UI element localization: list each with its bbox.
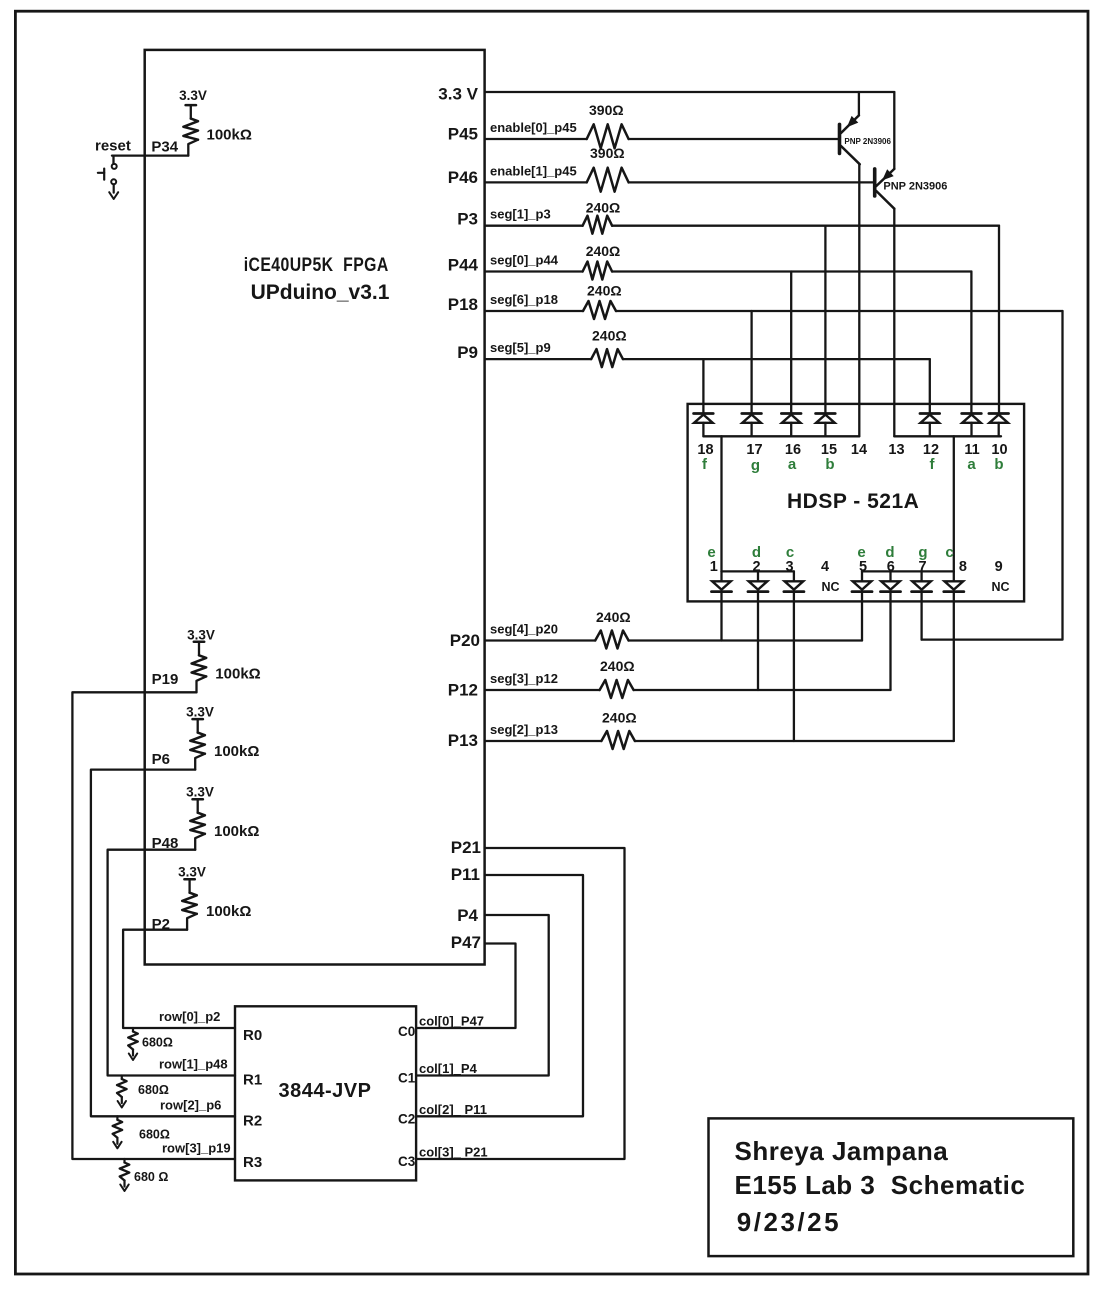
svg-text:row[0]_p2: row[0]_p2 [159, 1009, 220, 1024]
segment letter g (top) [751, 457, 760, 474]
wire seg g right drop [922, 311, 1063, 640]
pin P47 label [451, 933, 481, 952]
svg-text:R0: R0 [243, 1027, 262, 1044]
svg-text:R1: R1 [243, 1072, 262, 1089]
svg-text:seg[0]_p44: seg[0]_p44 [490, 253, 559, 268]
svg-text:14: 14 [851, 442, 867, 458]
pin number 17 label [746, 442, 762, 458]
svg-text:P9: P9 [457, 343, 478, 362]
pin R3 label [243, 1154, 262, 1171]
svg-text:240Ω: 240Ω [586, 243, 621, 259]
svg-text:col[2]_ P11: col[2]_ P11 [419, 1102, 487, 1117]
wire seg f net [623, 358, 930, 360]
svg-text:3.3 V: 3.3 V [438, 85, 478, 104]
pin P18 label [448, 295, 478, 314]
pin number 15 label [821, 442, 837, 458]
svg-text:Shreya Jampana: Shreya Jampana [735, 1136, 949, 1166]
svg-text:6: 6 [887, 559, 895, 575]
svg-text:E155 Lab 3 Schematic: E155 Lab 3 Schematic [735, 1170, 1026, 1200]
wire seg g net [616, 310, 1063, 312]
svg-text:13: 13 [888, 442, 904, 458]
svg-text:R2: R2 [243, 1113, 262, 1130]
wire pin 1 to seg e [720, 592, 722, 641]
net label row[0]_p2 [159, 1009, 220, 1024]
node 3.3V label at R1 [179, 88, 207, 103]
pin number 11 label [964, 442, 979, 458]
pin number 10 label [991, 442, 1007, 458]
switch SW1 reset pushbutton [98, 164, 117, 184]
wire seg a net [612, 270, 971, 272]
segment letter c (bottom) [945, 544, 953, 561]
svg-text:R3: R3 [243, 1154, 262, 1171]
LED diode pin 17 (g) [742, 414, 762, 437]
svg-text:100kΩ: 100kΩ [215, 666, 260, 683]
net label seg[6]_p18 [490, 292, 558, 307]
net label seg[0]_p44 [490, 253, 559, 268]
svg-text:C3: C3 [398, 1154, 416, 1169]
NC label pin 4 [821, 580, 839, 594]
pin P44 label [448, 256, 479, 275]
resistor R1 100k&#937; pull-up [183, 105, 198, 156]
LED diode pin 6 (d) [881, 571, 901, 591]
value label 100k&#937; R11 [215, 666, 260, 683]
svg-text:seg[4]_p20: seg[4]_p20 [490, 622, 558, 637]
pin P4 label [457, 906, 478, 925]
wire P11 to keypad C2 [416, 875, 583, 1116]
svg-text:P13: P13 [448, 731, 478, 750]
LED diode pin 5 (e) [852, 571, 872, 591]
FPGA U1 iCE40UP5K UPduino box [145, 50, 485, 965]
svg-text:3.3V: 3.3V [187, 628, 215, 643]
wire seg b net [612, 225, 999, 227]
svg-text:240Ω: 240Ω [587, 283, 622, 299]
resistor R16 680&#937; [117, 1076, 169, 1108]
svg-text:seg[5]_p9: seg[5]_p9 [490, 340, 551, 355]
pin P21 label [451, 838, 481, 857]
pin P9 label [457, 343, 478, 362]
svg-text:240Ω: 240Ω [586, 200, 621, 216]
segment letter b (top) [994, 456, 1003, 473]
svg-text:seg[6]_p18: seg[6]_p18 [490, 292, 558, 307]
wire seg b to pin 10 [998, 226, 1000, 414]
svg-text:3: 3 [785, 559, 793, 575]
pin R1 label [243, 1072, 262, 1089]
svg-text:3.3V: 3.3V [186, 705, 214, 720]
net label seg[4]_p20 [490, 622, 558, 637]
LED diode pin 18 (f) [694, 414, 714, 437]
svg-text:a: a [967, 456, 976, 473]
svg-text:a: a [788, 456, 797, 473]
svg-text:col[0]_P47: col[0]_P47 [419, 1014, 484, 1029]
segment letter a (top) [967, 456, 976, 473]
node 3.3V label at R12 [186, 705, 214, 720]
net label col[2]_P11 [419, 1102, 487, 1117]
pin number 9 label [995, 559, 1003, 575]
digit 2 common rail (pin 13) [894, 435, 1001, 437]
svg-text:3.3V: 3.3V [178, 865, 206, 880]
title block box [709, 1118, 1074, 1256]
segment letter e (bottom) [707, 544, 715, 561]
title text author [735, 1136, 949, 1166]
pin P48 label [152, 835, 179, 852]
pin number 2 label [752, 559, 760, 575]
wire seg a to pin 11 [970, 272, 972, 414]
pin number 13 label [888, 442, 904, 458]
svg-text:100kΩ: 100kΩ [207, 127, 252, 144]
value label 100k&#937; R13 [214, 823, 259, 840]
segment letter e (bottom) [857, 544, 865, 561]
pin R0 label [243, 1027, 262, 1044]
segment letter a (top) [788, 456, 797, 473]
svg-text:680Ω: 680Ω [142, 1036, 173, 1050]
svg-text:680Ω: 680Ω [139, 1128, 170, 1142]
wire P47 to keypad C0 [416, 944, 515, 1029]
net label enable[0]_p45 [490, 120, 577, 135]
transistor Q2 PNP 2N3906 [875, 92, 948, 209]
ground arrow below SW1 [109, 184, 118, 199]
svg-text:240Ω: 240Ω [592, 328, 627, 344]
svg-text:seg[3]_p12: seg[3]_p12 [490, 671, 558, 686]
node 3.3V label at R14 [178, 865, 206, 880]
wire pin 5 to seg e [861, 592, 863, 641]
resistor R10 240&#937; [601, 710, 636, 750]
svg-text:PNP 2N3906: PNP 2N3906 [883, 181, 947, 193]
pin P3 label [457, 210, 478, 229]
wire seg b to pin 15 [824, 226, 826, 414]
svg-text:1: 1 [710, 559, 718, 575]
svg-text:100kΩ: 100kΩ [206, 903, 251, 920]
svg-text:col[3]_ P21: col[3]_ P21 [419, 1145, 488, 1160]
wire pin 8 to seg c [953, 592, 955, 741]
segment letter g (bottom) [918, 544, 927, 561]
svg-text:row[3]_p19: row[3]_p19 [162, 1141, 231, 1156]
net label reset [95, 138, 131, 155]
svg-text:PNP 2N3906: PNP 2N3906 [844, 137, 891, 146]
wire P13 to R10 [485, 740, 601, 742]
pin number 4 label [821, 559, 829, 575]
pin P11 label [451, 865, 480, 884]
svg-text:row[2]_p6: row[2]_p6 [160, 1098, 221, 1113]
svg-text:240Ω: 240Ω [600, 658, 635, 674]
pin P45 label [448, 125, 478, 144]
value label 100k&#937; R12 [214, 743, 259, 760]
svg-text:240Ω: 240Ω [596, 609, 631, 625]
wire pin 6 to seg d [889, 592, 891, 690]
svg-text:C0: C0 [398, 1024, 415, 1039]
title text course [735, 1170, 1026, 1200]
segment letter d (bottom) [885, 544, 894, 561]
LED diode pin 8 (c) [944, 571, 964, 591]
svg-text:P21: P21 [451, 838, 481, 857]
resistor R3 390&#937; [587, 145, 629, 192]
resistor R4 240&#937; [583, 200, 621, 234]
wire P3 to R4 [485, 225, 583, 227]
LED diode pin 7 (g) [912, 571, 932, 591]
wire seg a to pin 16 [790, 272, 792, 414]
LED diode pin 15 (b) [816, 414, 836, 437]
pin number 16 label [785, 442, 801, 458]
display U2 HDSP-521A box [688, 404, 1025, 602]
wire P2 to keypad R0 [123, 930, 235, 1028]
title text date [737, 1207, 841, 1237]
net label enable[1]_p45 [490, 163, 577, 178]
svg-text:g: g [751, 457, 760, 474]
pin P19 label [152, 671, 179, 688]
svg-text:enable[0]_p45: enable[0]_p45 [490, 120, 577, 135]
pin number 5 label [859, 559, 867, 575]
node 3.3V supply pin label [438, 85, 478, 104]
LED diode pin 16 (a) [781, 414, 801, 437]
wire P9 to R7 [485, 358, 591, 360]
pin C3 label [398, 1154, 416, 1169]
svg-text:seg[2]_p13: seg[2]_p13 [490, 722, 558, 737]
net label row[2]_p6 [160, 1098, 221, 1113]
wire pin 3 to seg c [793, 592, 795, 741]
net label seg[3]_p12 [490, 671, 558, 686]
segment letter d (bottom) [752, 544, 761, 561]
svg-text:240Ω: 240Ω [602, 710, 637, 726]
svg-text:seg[1]_p3: seg[1]_p3 [490, 207, 551, 222]
svg-text:P34: P34 [151, 139, 178, 156]
digit 1 bottom rail [722, 570, 794, 572]
wire 3.3V supply rail [485, 91, 894, 93]
pin number 18 label [697, 442, 713, 458]
segment letter f (top) [930, 456, 936, 473]
net label seg[2]_p13 [490, 722, 558, 737]
pin P6 label [152, 751, 170, 768]
pin P13 label [448, 731, 478, 750]
wire Q2 collector to display pin 13 [893, 209, 895, 437]
wire P20 to R8 [485, 639, 595, 641]
svg-text:3844-JVP: 3844-JVP [279, 1080, 372, 1102]
svg-text:f: f [930, 456, 936, 473]
pin P34 label [151, 139, 178, 156]
svg-text:17: 17 [746, 442, 762, 458]
value label 100k&#937; R14 [206, 903, 251, 920]
segment letter c (bottom) [786, 544, 794, 561]
resistor R8 240&#937; [595, 609, 630, 649]
resistor R5 240&#937; [583, 243, 621, 280]
resistor R12 100k&#937; pull-up [190, 719, 205, 770]
wire seg f to pin 18 [702, 359, 704, 413]
LED diode pin 12 (f) [920, 414, 940, 437]
pin C0 label [398, 1024, 415, 1039]
wire P48 to keypad R1 [108, 850, 235, 1076]
digit 1 common rail (pin 14) [703, 435, 859, 437]
resistor R18 680&#937; [120, 1159, 169, 1191]
wire seg f to pin 12 [929, 359, 931, 413]
pin R2 label [243, 1113, 262, 1130]
svg-text:f: f [702, 456, 708, 473]
wire P4 to keypad C1 [416, 915, 549, 1076]
net label row[3]_p19 [162, 1141, 231, 1156]
wire P21 to keypad C3 [416, 848, 624, 1159]
wire Q1 collector to display pin 14 [858, 164, 860, 436]
svg-text:P19: P19 [152, 671, 179, 688]
pin P20 label [450, 631, 480, 650]
svg-text:680 Ω: 680 Ω [134, 1170, 168, 1184]
svg-text:390Ω: 390Ω [590, 145, 625, 161]
net label col[1]_P4 [419, 1061, 478, 1076]
digit 2 common connector [953, 436, 955, 571]
keypad U3 3844-JVP box [235, 1006, 416, 1180]
value label 100k&#937; R1 [207, 127, 252, 144]
net label seg[5]_p9 [490, 340, 551, 355]
svg-text:P44: P44 [448, 256, 479, 275]
resistor R6 240&#937; [583, 283, 622, 320]
resistor R13 100k&#937; pull-up [190, 799, 205, 850]
pin number 3 label [785, 559, 793, 575]
svg-text:7: 7 [918, 559, 926, 575]
node 3.3V label at R13 [186, 785, 214, 800]
svg-text:c: c [945, 544, 953, 561]
pin P2 label [152, 916, 170, 933]
svg-text:UPduino_v3.1: UPduino_v3.1 [251, 281, 390, 304]
wire P45 to R2 [485, 138, 587, 140]
svg-text:680Ω: 680Ω [138, 1083, 169, 1097]
svg-text:3.3V: 3.3V [186, 785, 214, 800]
wire P44 to R5 [485, 270, 583, 272]
pin number 1 label [710, 559, 718, 575]
resistor R11 100k&#937; pull-up [192, 642, 207, 693]
resistor R17 680&#937; [113, 1116, 170, 1148]
net label seg[1]_p3 [490, 207, 551, 222]
svg-text:enable[1]_p45: enable[1]_p45 [490, 163, 577, 178]
resistor R2 390&#937; [587, 102, 629, 148]
svg-text:5: 5 [859, 559, 867, 575]
LED diode pin 2 (d) [748, 571, 768, 591]
LED diode pin 1 (e) [712, 571, 732, 591]
svg-text:P46: P46 [448, 168, 478, 187]
wire pin 2 to seg d [757, 592, 759, 690]
svg-text:P4: P4 [457, 906, 478, 925]
svg-text:HDSP - 521A: HDSP - 521A [787, 490, 919, 513]
svg-text:C2: C2 [398, 1112, 415, 1127]
wire R2 to Q1 base [629, 138, 840, 140]
resistor R9 240&#937; [600, 658, 635, 698]
digit 1 common connector [720, 436, 722, 571]
transistor Q1 PNP 2N3906 [840, 92, 892, 164]
net label col[0]_P47 [419, 1014, 484, 1029]
pin number 12 label [923, 442, 939, 458]
resistor R7 240&#937; [591, 328, 626, 368]
svg-text:col[1]_P4: col[1]_P4 [419, 1061, 478, 1076]
node 3.3V label at R11 [187, 628, 215, 643]
net label col[3]_P21 [419, 1145, 488, 1160]
svg-text:C1: C1 [398, 1071, 416, 1086]
wire seg e net [629, 639, 862, 641]
svg-text:P6: P6 [152, 751, 170, 768]
svg-text:b: b [994, 456, 1003, 473]
pin P46 label [448, 168, 478, 187]
svg-text:P45: P45 [448, 125, 478, 144]
digit 2 bottom rail [862, 570, 954, 572]
pin number 6 label [887, 559, 895, 575]
pin number 7 label [918, 559, 926, 575]
net label row[1]_p48 [159, 1057, 228, 1072]
pin P12 label [448, 681, 478, 700]
svg-text:b: b [825, 456, 834, 473]
svg-text:reset: reset [95, 138, 131, 155]
svg-text:row[1]_p48: row[1]_p48 [159, 1057, 228, 1072]
wire seg g to pin 7 [920, 592, 922, 640]
svg-text:3.3V: 3.3V [179, 88, 207, 103]
svg-text:P47: P47 [451, 933, 481, 952]
wire P19 to keypad R3 [72, 692, 235, 1159]
pin number 14 label [851, 442, 867, 458]
svg-text:9: 9 [995, 559, 1003, 575]
wire P34 reset net [112, 156, 188, 164]
LED diode pin 10 (b) [989, 414, 1009, 437]
wire P46 to R3 [485, 181, 587, 183]
pin C2 label [398, 1112, 415, 1127]
svg-text:2: 2 [752, 559, 760, 575]
svg-text:9/23/25: 9/23/25 [737, 1207, 841, 1237]
wire P12 to R9 [485, 689, 600, 691]
NC label pin 9 [991, 580, 1009, 594]
wire R3 to Q2 base [629, 181, 875, 183]
svg-text:390Ω: 390Ω [589, 102, 624, 118]
svg-text:100kΩ: 100kΩ [214, 823, 259, 840]
svg-text:P11: P11 [451, 865, 480, 884]
pin number 8 label [959, 559, 967, 575]
svg-text:iCE40UP5K FPGA: iCE40UP5K FPGA [244, 255, 389, 276]
svg-text:P3: P3 [457, 210, 478, 229]
pin C1 label [398, 1071, 416, 1086]
segment letter f (top) [702, 456, 708, 473]
resistor R15 680&#937; [128, 1028, 173, 1060]
svg-text:NC: NC [821, 580, 839, 594]
resistor R14 100k&#937; pull-up [182, 879, 197, 930]
wire P18 to R6 [485, 310, 583, 312]
LED diode pin 3 (c) [784, 571, 804, 591]
wire seg d net [634, 689, 891, 691]
LED diode pin 11 (a) [962, 414, 982, 437]
wire P6 to keypad R2 [91, 770, 235, 1117]
svg-text:P20: P20 [450, 631, 480, 650]
svg-text:8: 8 [959, 559, 967, 575]
wire seg c net [635, 740, 954, 742]
svg-text:4: 4 [821, 559, 829, 575]
svg-text:NC: NC [991, 580, 1009, 594]
segment letter b (top) [825, 456, 834, 473]
svg-text:P18: P18 [448, 295, 478, 314]
svg-text:P12: P12 [448, 681, 478, 700]
wire seg g to pin 17 [750, 311, 752, 414]
svg-text:100kΩ: 100kΩ [214, 743, 259, 760]
